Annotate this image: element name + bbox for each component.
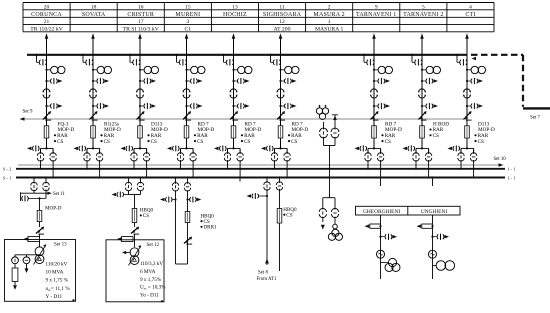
svg-text:HOCHIZ: HOCHIZ [223,12,247,18]
svg-text:11: 11 [279,4,285,10]
svg-text:AT 200: AT 200 [274,27,291,33]
svg-text:CS: CS [151,139,157,145]
svg-text:Set 9: Set 9 [23,110,33,115]
svg-text:TR SI 110/3 kV: TR SI 110/3 kV [123,27,160,33]
svg-text:TR 110/22 kV: TR 110/22 kV [30,27,64,33]
svg-text:5: 5 [422,4,425,10]
svg-text:CORUNCA: CORUNCA [31,12,62,18]
svg-text:6 MVA: 6 MVA [140,269,156,275]
svg-text:17: 17 [138,19,144,25]
svg-text:18: 18 [91,4,97,10]
svg-text:From AT1: From AT1 [257,277,278,282]
svg-text:GHEORGHIENI: GHEORGHIENI [363,209,400,215]
svg-text:1: 1 [328,19,331,25]
svg-text:CRISTUR: CRISTUR [127,12,154,18]
svg-text:20: 20 [44,4,50,10]
svg-text:16: 16 [138,4,144,10]
svg-text:2: 2 [328,4,331,10]
svg-text:Y - D11: Y - D11 [46,294,63,300]
svg-text:SIGHISOARA: SIGHISOARA [263,12,302,18]
svg-text:CS: CS [478,139,484,145]
svg-text:MOP-D: MOP-D [45,205,62,211]
svg-text:C1: C1 [185,27,192,33]
svg-text:CTI: CTI [465,12,475,18]
svg-text:CS: CS [197,139,203,145]
svg-text:Set 10: Set 10 [494,157,507,162]
svg-text:1 - 1: 1 - 1 [508,175,516,180]
svg-text:CS: CS [291,139,297,145]
svg-text:15: 15 [185,4,191,10]
svg-text:Set 12: Set 12 [147,243,160,248]
svg-text:9: 9 [375,4,378,10]
svg-text:Yo - D11: Yo - D11 [140,292,159,298]
svg-text:12: 12 [279,19,285,25]
svg-text:S - 1: S - 1 [3,175,11,180]
svg-text:UNGHIENI: UNGHIENI [421,209,448,215]
svg-text:3: 3 [186,19,189,25]
svg-text:CS: CS [104,139,110,145]
svg-text:S - 2: S - 2 [3,167,11,172]
svg-text:MASURA 2: MASURA 2 [313,12,344,18]
svg-text:TARNAVENI 1: TARNAVENI 1 [356,12,396,18]
svg-text:SOVATA: SOVATA [82,12,106,18]
svg-text:Set 11: Set 11 [53,192,66,197]
svg-text:9 x 1,75 %: 9 x 1,75 % [46,278,69,284]
svg-text:CS: CS [286,212,292,218]
svg-text:Set 8: Set 8 [258,270,268,275]
svg-text:Set 7: Set 7 [530,116,540,121]
svg-text:4: 4 [469,4,472,10]
svg-text:CS: CS [385,139,391,145]
svg-text:110/20 kV: 110/20 kV [46,261,68,267]
svg-text:MURENI: MURENI [175,12,200,18]
svg-text:110/3,3 kV: 110/3,3 kV [140,261,163,267]
svg-text:CS: CS [433,133,439,139]
svg-text:DRR1: DRR1 [204,225,217,231]
svg-text:9 x 1,75%: 9 x 1,75% [140,277,162,283]
svg-text:13: 13 [232,4,238,10]
svg-text:CS: CS [143,213,149,219]
svg-text:10 MVA: 10 MVA [46,270,64,276]
svg-text:Set 13: Set 13 [54,242,67,247]
svg-text:TARNAVENI 2: TARNAVENI 2 [403,12,443,18]
svg-text:CS: CS [244,139,250,145]
svg-text:1 - 1: 1 - 1 [508,167,516,172]
svg-text:CS: CS [57,139,63,145]
svg-text:MASURA 1: MASURA 1 [315,27,343,33]
svg-text:21: 21 [44,19,50,25]
